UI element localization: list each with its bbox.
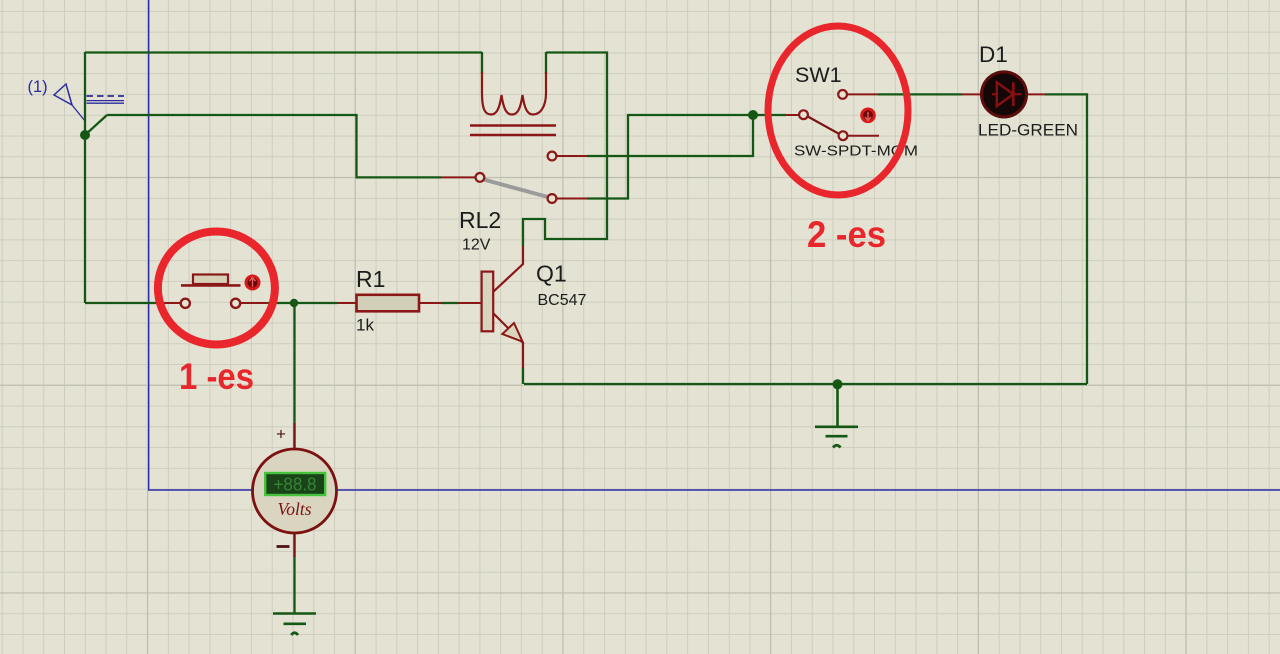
svg-text:R1: R1 [356, 266, 385, 292]
switch SW1 pole contact [799, 110, 808, 119]
pushbutton left pin [164, 302, 181, 304]
wire R1 to Q1 base [441, 302, 458, 304]
svg-text:Volts: Volts [277, 499, 311, 519]
wire button to R1 [268, 302, 337, 304]
resistor R1 left pin [337, 302, 357, 304]
pushbutton cap [193, 275, 228, 285]
annotation circle 1 [158, 232, 275, 345]
transistor Q1 base bar [482, 272, 494, 332]
wire top rail right to collector [523, 53, 607, 247]
annotation circle 2 [768, 26, 908, 195]
relay RL2 pole contact [476, 173, 485, 182]
relay RL2 NO contact [548, 194, 557, 203]
wire meter plus [293, 303, 295, 423]
switch SW1 top pin [847, 93, 878, 95]
pushbutton bar [181, 284, 241, 287]
resistor R1 body [357, 295, 420, 312]
transistor Q1 collector pin [493, 246, 523, 292]
wire to relay pole [107, 115, 441, 177]
transistor Q1 emitter arrow [502, 323, 522, 342]
wire supply vertical [84, 52, 86, 303]
node B junction [748, 110, 758, 120]
svg-text:(1): (1) [28, 78, 48, 96]
relay RL2 coil [482, 72, 546, 115]
svg-text:2 -es: 2 -es [807, 214, 886, 255]
switch SW1 blade [808, 117, 839, 134]
node (1) marker symbol [54, 84, 124, 121]
wire top rail left [85, 51, 482, 53]
sheet border (blue) [149, 0, 1280, 490]
voltmeter minus sign [277, 545, 290, 548]
LED D1 right pin [1028, 93, 1045, 95]
svg-text:SW1: SW1 [795, 63, 842, 87]
wire ground rail bottom [524, 383, 1087, 385]
LED D1 left pin [962, 93, 980, 95]
wire emitter to ground rail [522, 368, 524, 384]
wire diagonal from node A [85, 115, 107, 135]
relay RL2 NO pin [556, 198, 587, 200]
transistor Q1 emitter pin [493, 313, 523, 368]
svg-text:LED-GREEN: LED-GREEN [978, 121, 1078, 140]
voltmeter LCD [265, 473, 325, 495]
switch SW1 bottom pin [847, 135, 879, 137]
relay RL2 core [470, 126, 556, 136]
wire coil left lead [481, 52, 483, 74]
wire button feed [85, 302, 164, 304]
svg-text:+: + [276, 425, 286, 444]
pushbutton actuator dot [245, 275, 261, 291]
node A junction [80, 130, 90, 140]
resistor R1 right pin [419, 302, 441, 304]
wire relay NC branch [587, 115, 753, 156]
voltmeter plus pin [293, 423, 295, 450]
wire coil right lead [545, 52, 547, 74]
relay RL2 NC pin [556, 155, 587, 157]
node C junction [833, 379, 843, 389]
svg-text:BC547: BC547 [538, 292, 587, 309]
svg-text:1k: 1k [356, 316, 374, 335]
relay RL2 NC contact [548, 152, 557, 161]
switch SW1 pole pin [786, 114, 799, 116]
svg-text:RL2: RL2 [459, 207, 501, 233]
svg-text:+88.8: +88.8 [274, 474, 317, 495]
voltmeter minus pin [293, 532, 295, 557]
ground GND1 (meter) [273, 614, 316, 636]
switch SW1 bottom contact [839, 131, 848, 140]
transistor Q1 base pin [458, 302, 482, 304]
wire relay NO to SW1 [587, 115, 786, 199]
node D junction [290, 299, 298, 307]
switch SW1 top contact [838, 90, 847, 99]
svg-text:1 -es: 1 -es [179, 356, 254, 397]
switch SW1 actuator dot [860, 108, 876, 124]
svg-text:D1: D1 [979, 42, 1008, 67]
wire LED to right rail [1045, 94, 1087, 384]
pushbutton right contact [231, 299, 240, 308]
LED D1 body [980, 70, 1028, 118]
voltmeter body [253, 449, 337, 533]
wire meter minus to ground [293, 557, 295, 614]
relay RL2 pole pin [441, 176, 475, 178]
relay RL2 blade [484, 180, 549, 198]
ground GND2 (emitter rail) [815, 384, 858, 448]
pushbutton left contact [181, 299, 190, 308]
pushbutton right pin [241, 302, 268, 304]
wire SW1 to LED [878, 93, 962, 95]
svg-text:Q1: Q1 [536, 261, 567, 287]
svg-text:12V: 12V [462, 237, 491, 254]
